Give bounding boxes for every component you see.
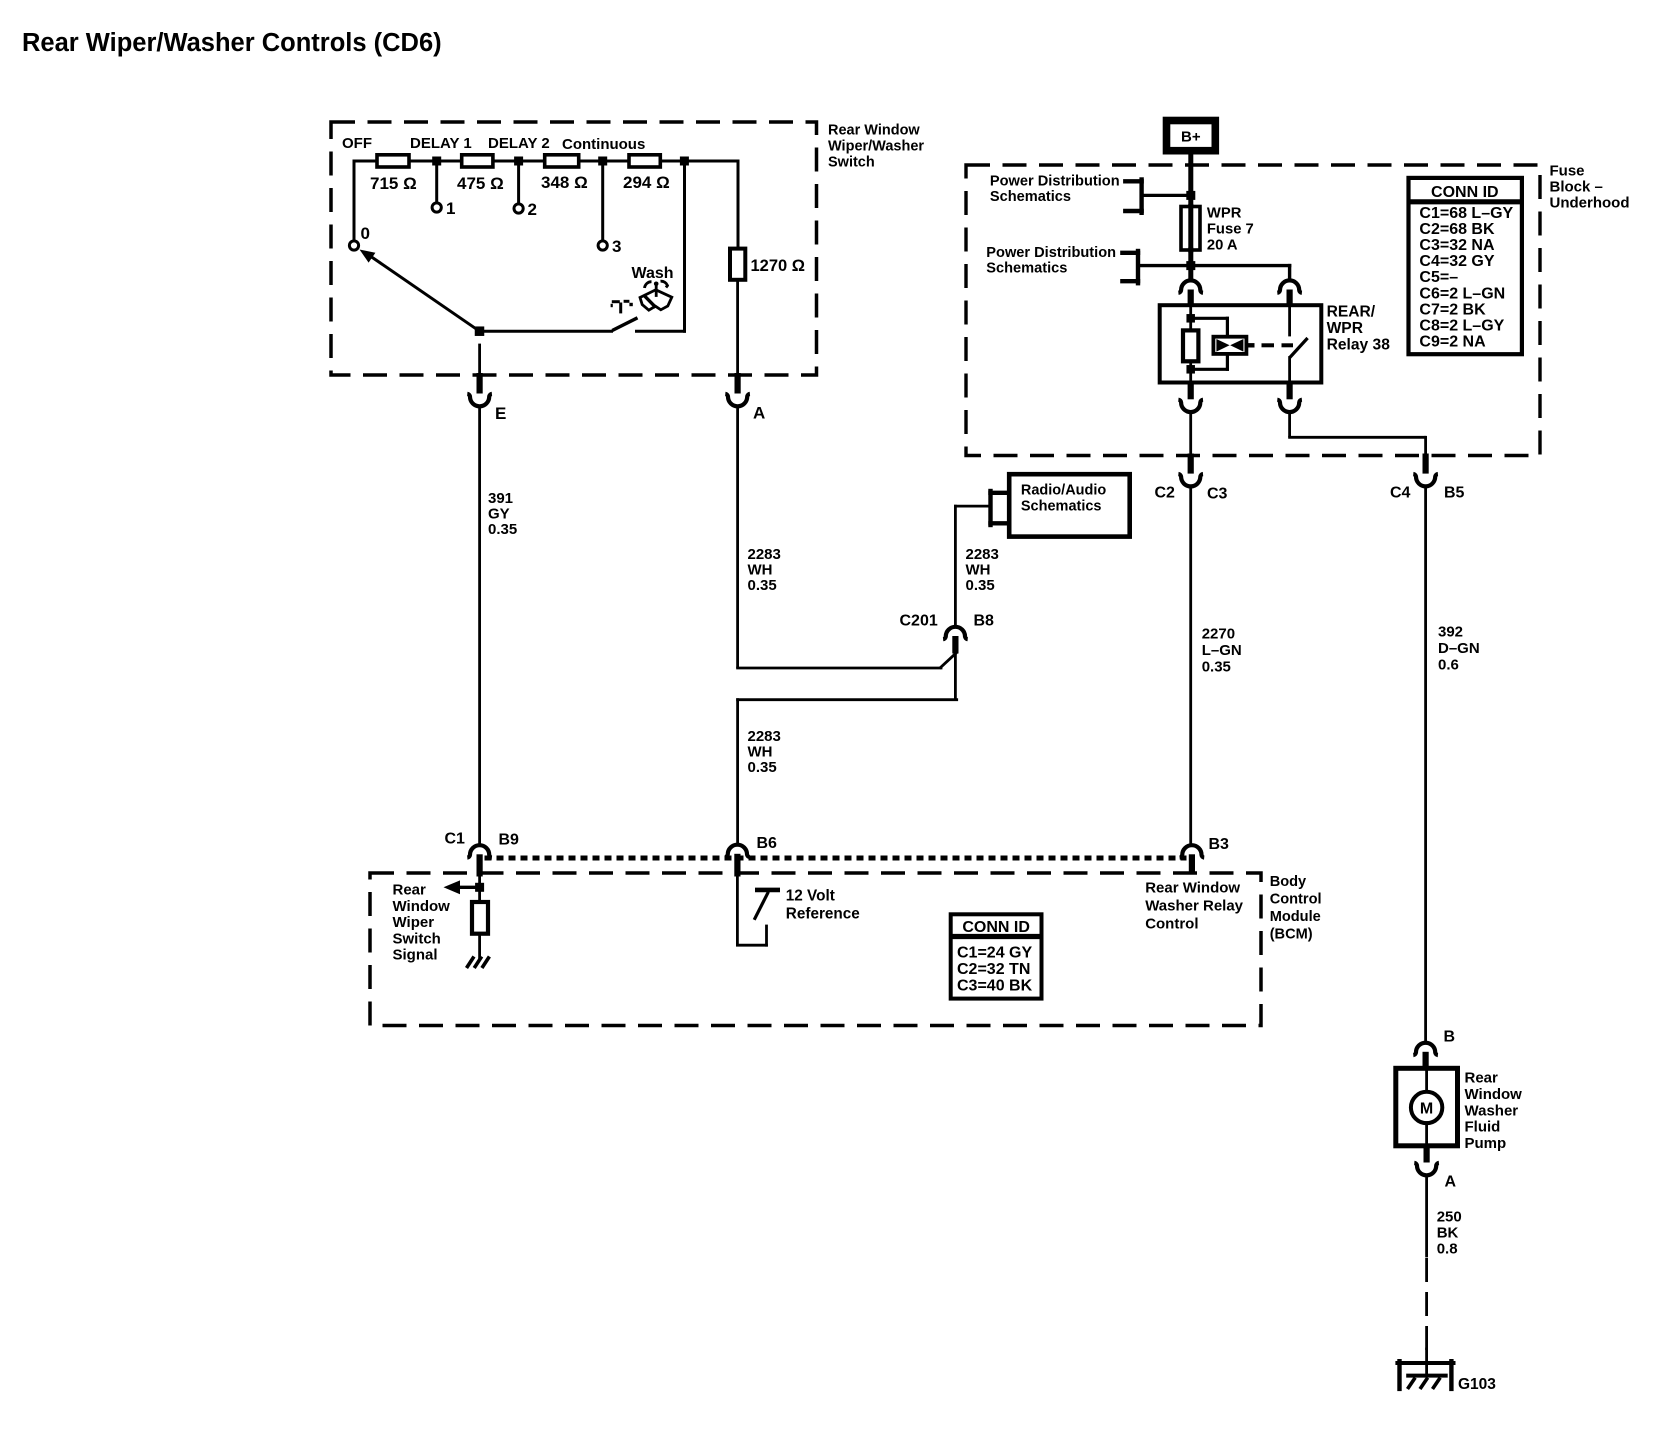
svg-text:1: 1 <box>446 199 455 218</box>
relay coil pin bar <box>1188 290 1194 307</box>
wire relay switch output <box>1288 358 1291 383</box>
ground G103 frame <box>1397 1361 1453 1365</box>
power distribution bracket 2 <box>1136 251 1140 283</box>
svg-text:C6=2 L–GN: C6=2 L–GN <box>1419 285 1505 302</box>
wire 2270 L-GN <box>1189 488 1192 846</box>
svg-text:WH: WH <box>748 744 773 761</box>
connector C2/C3 cup <box>1178 474 1203 486</box>
bcm internal ground <box>467 957 475 969</box>
pin E bar <box>477 373 483 394</box>
svg-text:475 Ω: 475 Ω <box>457 174 504 193</box>
svg-text:C4: C4 <box>1390 485 1411 502</box>
wire 2283 down to B6 <box>736 700 739 845</box>
wire E inside box <box>478 345 481 374</box>
svg-text:0.8: 0.8 <box>1437 1241 1458 1258</box>
svg-text:C8=2 L–GY: C8=2 L–GY <box>1419 318 1504 335</box>
svg-text:Body: Body <box>1270 874 1307 890</box>
junction node 2 <box>514 157 523 166</box>
svg-text:2283: 2283 <box>748 546 781 563</box>
relay actuation dashed link <box>1262 343 1275 347</box>
svg-text:Control: Control <box>1145 916 1198 933</box>
pump motor M <box>1411 1092 1442 1123</box>
relay switch output bar <box>1287 382 1293 400</box>
wiper signal arrowhead <box>444 880 461 894</box>
relay actuation stub <box>1247 343 1255 347</box>
svg-text:WPR: WPR <box>1327 320 1363 337</box>
wire 2283 to radio vertical <box>954 506 957 626</box>
connector C1/B9 bar <box>477 854 483 876</box>
relay armature bowtie <box>1216 339 1229 352</box>
connector B6 dome <box>725 845 750 857</box>
wash icon spray arcs <box>645 282 652 288</box>
ground G103 hatches <box>1408 1378 1416 1389</box>
svg-text:Switch: Switch <box>828 155 875 171</box>
svg-text:(BCM): (BCM) <box>1270 927 1313 943</box>
svg-text:250: 250 <box>1437 1209 1462 1226</box>
relay armature bracket top <box>1191 317 1228 320</box>
svg-text:0: 0 <box>361 224 370 243</box>
resistor 1270 ohm <box>730 249 745 280</box>
wire relay coil bottom <box>1189 361 1192 382</box>
svg-text:WPR: WPR <box>1207 206 1242 222</box>
svg-text:Schematics: Schematics <box>1021 499 1102 515</box>
junction fuse output / relay switch feed <box>1186 261 1195 270</box>
svg-text:2270: 2270 <box>1202 626 1235 643</box>
wire wash branch up <box>683 161 686 331</box>
wire fuse to relay coil <box>1188 250 1193 280</box>
svg-text:715 Ω: 715 Ω <box>370 174 417 193</box>
wire 250 BK solid <box>1425 1176 1428 1256</box>
svg-text:B8: B8 <box>974 613 995 630</box>
wash icon handle marks <box>612 300 620 303</box>
wire top rail seg3 <box>492 160 547 163</box>
rear window wiper/washer switch box (dashed) <box>331 122 817 375</box>
relay switch output cup <box>1277 400 1302 412</box>
svg-text:Washer Relay: Washer Relay <box>1145 898 1243 915</box>
svg-text:Switch: Switch <box>393 930 441 947</box>
relay switch pin connector dome <box>1277 280 1302 292</box>
wire 2283 horizontal to B6 column <box>738 698 957 701</box>
pin A bar <box>735 373 741 394</box>
svg-text:C2: C2 <box>1155 485 1176 502</box>
svg-text:C9=2 NA: C9=2 NA <box>1419 334 1486 351</box>
svg-text:G103: G103 <box>1458 1376 1496 1393</box>
svg-text:C7=2 BK: C7=2 BK <box>1419 301 1486 318</box>
svg-text:3: 3 <box>612 237 621 256</box>
svg-text:B5: B5 <box>1444 485 1465 502</box>
svg-text:A: A <box>1445 1174 1457 1191</box>
connector B3 bar <box>1189 854 1195 872</box>
svg-text:2283: 2283 <box>748 728 781 745</box>
resistor 294 ohm <box>629 155 660 167</box>
svg-text:Fuse 7: Fuse 7 <box>1207 222 1254 238</box>
svg-text:Schematics: Schematics <box>986 261 1067 277</box>
connector B3 dome <box>1180 845 1205 857</box>
relay armature bracket bottom <box>1226 354 1229 369</box>
svg-text:Fuse: Fuse <box>1550 163 1585 180</box>
svg-text:Washer: Washer <box>1465 1102 1519 1119</box>
fuse block CONN ID table <box>1409 178 1522 354</box>
resistor 348 ohm <box>545 155 579 167</box>
wire wash branch right <box>637 330 685 333</box>
svg-text:294 Ω: 294 Ω <box>623 173 670 192</box>
svg-text:Underhood: Underhood <box>1550 195 1630 212</box>
svg-text:CONN ID: CONN ID <box>1431 184 1499 201</box>
connector C201 dome <box>943 627 968 639</box>
svg-text:M: M <box>1420 1101 1433 1118</box>
relay 38 box <box>1160 305 1322 382</box>
svg-text:392: 392 <box>1438 624 1463 641</box>
relay coil output cup <box>1178 400 1203 412</box>
connector A cup <box>1414 1163 1439 1175</box>
svg-text:Relay 38: Relay 38 <box>1327 337 1391 354</box>
wire 2283 A down <box>736 408 739 667</box>
fuse WPR Fuse 7 20A <box>1181 207 1200 251</box>
relay coil output bar <box>1188 382 1194 400</box>
svg-text:348 Ω: 348 Ω <box>541 173 588 192</box>
svg-text:C1: C1 <box>445 831 466 848</box>
junction node 1 <box>432 157 441 166</box>
ground G103 bar <box>1408 1374 1446 1378</box>
junction wiper signal arrow <box>475 883 484 892</box>
pin A connector cup <box>725 394 750 406</box>
svg-text:C5=–: C5=– <box>1419 269 1458 286</box>
wire top rail seg1 <box>354 160 379 163</box>
svg-text:Control: Control <box>1270 892 1322 908</box>
svg-text:0.35: 0.35 <box>748 577 777 594</box>
svg-text:Continuous: Continuous <box>562 136 645 153</box>
svg-text:Module: Module <box>1270 909 1321 925</box>
wire into ground <box>1425 1349 1428 1375</box>
wire A branch bottom <box>736 280 739 374</box>
junction switch arm <box>475 326 485 336</box>
junction node 3 <box>598 157 607 166</box>
svg-text:Power Distribution: Power Distribution <box>986 245 1116 261</box>
junction B+ / PDS1 <box>1186 191 1195 200</box>
wire relay switch output down <box>1288 413 1291 436</box>
wire resistor to ground <box>478 934 481 958</box>
svg-text:Reference: Reference <box>786 906 860 923</box>
svg-text:C3=32 NA: C3=32 NA <box>1419 237 1495 254</box>
relay coil pin connector dome <box>1178 280 1203 292</box>
svg-text:1270 Ω: 1270 Ω <box>751 257 806 275</box>
junction relay coil top <box>1186 314 1195 323</box>
svg-text:Pump: Pump <box>1465 1135 1507 1152</box>
svg-text:WH: WH <box>748 562 773 579</box>
radio/audio schematics box <box>1009 474 1129 536</box>
resistor 475 ohm <box>462 155 493 167</box>
connector A bar <box>1424 1145 1430 1163</box>
svg-text:Wash: Wash <box>632 265 674 282</box>
wire 392 D-GN <box>1424 488 1427 1043</box>
svg-text:D–GN: D–GN <box>1438 640 1480 657</box>
wiper signal arrow line <box>458 886 480 889</box>
wire stub 3 <box>601 161 604 241</box>
svg-text:Rear Window: Rear Window <box>828 123 920 139</box>
12 volt reference hook <box>737 944 766 947</box>
connector C4/B5 cup <box>1413 474 1438 486</box>
svg-text:DELAY 2: DELAY 2 <box>488 135 550 152</box>
svg-text:DELAY 1: DELAY 1 <box>410 135 472 152</box>
wire relay coil output <box>1189 413 1192 454</box>
wire top rail seg2 <box>408 160 464 163</box>
connector B bar <box>1423 1052 1429 1069</box>
svg-text:Window: Window <box>1465 1086 1523 1103</box>
wire 391 GY <box>478 408 481 846</box>
svg-text:Fluid: Fluid <box>1465 1119 1501 1136</box>
wash switch blade <box>612 318 637 331</box>
12 volt reference blade <box>754 892 768 920</box>
svg-text:C1=68 L–GY: C1=68 L–GY <box>1419 205 1513 222</box>
wash icon wiper blade <box>640 290 672 310</box>
relay switch pin bar <box>1287 290 1293 307</box>
svg-text:20 A: 20 A <box>1207 238 1238 254</box>
svg-text:Rear: Rear <box>393 882 427 899</box>
svg-text:Rear: Rear <box>1465 1070 1499 1087</box>
svg-text:WH: WH <box>966 562 991 579</box>
svg-text:0.35: 0.35 <box>488 521 517 538</box>
body control module box (dashed) <box>370 873 1261 1026</box>
washer pump box <box>1396 1068 1458 1146</box>
svg-text:2: 2 <box>528 200 537 219</box>
connector B6 bar <box>734 854 740 877</box>
connector C201 pin bar <box>952 636 958 654</box>
svg-text:0.6: 0.6 <box>1438 657 1459 674</box>
fuse block underhood box (dashed) <box>966 165 1540 456</box>
wire pump bottom <box>1425 1123 1428 1146</box>
svg-text:Signal: Signal <box>393 947 438 964</box>
wire relay coil top <box>1189 306 1192 331</box>
wire stub 2 <box>517 161 520 204</box>
relay coil <box>1183 330 1198 361</box>
switch arm arrowhead <box>360 250 376 263</box>
svg-text:2283: 2283 <box>966 546 999 563</box>
svg-text:C2=32 TN: C2=32 TN <box>957 961 1030 978</box>
svg-text:Window: Window <box>393 898 451 915</box>
svg-text:Schematics: Schematics <box>990 189 1071 205</box>
svg-text:GY: GY <box>488 506 510 523</box>
svg-text:0.35: 0.35 <box>966 577 995 594</box>
svg-text:B9: B9 <box>499 832 520 849</box>
svg-text:B6: B6 <box>757 835 778 852</box>
pin E connector cup <box>467 394 492 406</box>
12 volt reference bar <box>755 888 780 893</box>
wire B9 into bcm <box>478 877 481 903</box>
resistor 715 ohm <box>377 155 409 167</box>
svg-text:BK: BK <box>1437 1225 1459 1242</box>
radio bracket <box>988 491 992 525</box>
wire A branch top <box>737 161 740 249</box>
svg-text:L–GN: L–GN <box>1202 642 1242 659</box>
svg-text:Block –: Block – <box>1550 179 1603 196</box>
terminal 0 <box>349 241 358 250</box>
connector C1/B9 dome <box>467 845 492 857</box>
wire relay fixed contact <box>1288 306 1291 335</box>
power distribution bracket 1 <box>1139 180 1143 213</box>
svg-text:391: 391 <box>488 490 513 507</box>
wire branch to relay switch <box>1193 264 1290 267</box>
wire 2283 A horizontal <box>738 667 941 670</box>
svg-text:C201: C201 <box>900 613 938 630</box>
svg-text:OFF: OFF <box>342 135 372 152</box>
terminal 1 <box>432 203 441 212</box>
svg-text:0.35: 0.35 <box>748 759 777 776</box>
wire 2283 below C201 <box>954 654 957 699</box>
svg-text:Rear Wiper/Washer Controls (CD: Rear Wiper/Washer Controls (CD6) <box>22 29 442 57</box>
wire 250 BK dashed <box>1425 1258 1428 1352</box>
wire B+ down <box>1188 154 1193 206</box>
bcm pulldown resistor <box>472 902 488 934</box>
svg-text:C1=24 GY: C1=24 GY <box>957 944 1032 961</box>
svg-text:REAR/: REAR/ <box>1327 304 1376 321</box>
wire to radio bracket <box>955 505 988 508</box>
relay armature box <box>1213 337 1246 354</box>
svg-text:Radio/Audio: Radio/Audio <box>1021 483 1107 499</box>
svg-text:C3=40 BK: C3=40 BK <box>957 978 1033 995</box>
svg-text:E: E <box>495 404 506 423</box>
svg-text:Wiper/Washer: Wiper/Washer <box>828 139 924 155</box>
switch arm wiper <box>368 255 480 332</box>
connector B dome <box>1413 1043 1438 1055</box>
wire top rail seg5 <box>659 160 738 163</box>
bcm CONN ID table <box>951 914 1042 998</box>
relay switch blade <box>1290 338 1308 358</box>
svg-text:Power Distribution: Power Distribution <box>990 174 1120 190</box>
svg-text:B+: B+ <box>1181 129 1201 146</box>
svg-text:0.35: 0.35 <box>1202 659 1231 676</box>
wire B6 into bcm <box>736 877 739 945</box>
B+ terminal box <box>1167 121 1216 151</box>
svg-text:Rear Window: Rear Window <box>1145 880 1240 897</box>
connector C2/C3 bar <box>1188 454 1194 474</box>
terminal 3 <box>598 241 607 250</box>
wire 2283 diagonal to C201 <box>941 654 956 668</box>
wire pump top <box>1425 1068 1428 1092</box>
wire stub 1 <box>435 161 438 203</box>
wire through fuse <box>1188 207 1193 251</box>
terminal 2 <box>514 204 523 213</box>
svg-text:B3: B3 <box>1209 836 1230 853</box>
wire wash branch left <box>480 330 612 333</box>
svg-text:B: B <box>1444 1029 1456 1046</box>
bcm interconnect dotted line <box>485 856 1187 861</box>
svg-text:C2=68 BK: C2=68 BK <box>1419 221 1495 238</box>
svg-text:CONN ID: CONN ID <box>962 919 1030 936</box>
junction relay coil bottom <box>1186 365 1195 374</box>
wire relay switch output across <box>1290 436 1425 439</box>
svg-text:C3: C3 <box>1207 486 1228 503</box>
svg-text:12 Volt: 12 Volt <box>786 888 835 905</box>
svg-text:A: A <box>753 404 765 423</box>
junction wash branch <box>680 157 689 166</box>
wire top rail seg4 <box>578 160 631 163</box>
wire left rail <box>353 161 356 241</box>
svg-text:C4=32 GY: C4=32 GY <box>1419 253 1494 270</box>
connector C4/B5 bar <box>1423 454 1429 474</box>
svg-text:Wiper: Wiper <box>393 914 435 931</box>
